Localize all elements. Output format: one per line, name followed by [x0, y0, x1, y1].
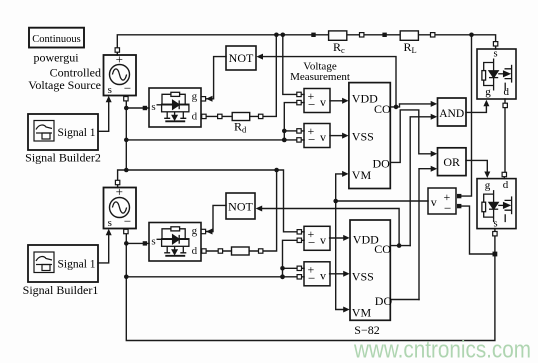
wire MOSFET3 s down, bottom rail, up to source2 -: [126, 234, 495, 341]
port source2 -: [124, 229, 128, 233]
wire branch to MOSFET1b s: [126, 242, 142, 244]
wire v-block - to MOSFET3 s node: [461, 206, 492, 254]
voltage measurement v sense: [428, 188, 456, 215]
wire R_L leads: [387, 34, 433, 36]
port v sense + filled: [457, 194, 461, 198]
port VM2 -: [297, 138, 301, 142]
voltage measurement VM1b: [304, 226, 330, 250]
wire OR bottom input from DO2: [419, 169, 432, 300]
svg-text:Voltage Source: Voltage Source: [28, 78, 101, 92]
wire source1 + to top rail: [117, 35, 313, 48]
port MOSFET1 g: [201, 97, 205, 101]
svg-text:s: s: [108, 84, 112, 96]
wire mid node long horizontal: [126, 139, 296, 141]
wire OR output to MOSFET3 g: [466, 160, 487, 171]
port VM1b -: [297, 238, 301, 242]
MOSFET M3: [477, 179, 516, 230]
svg-text:DO: DO: [373, 156, 391, 170]
wire VM1 out to VDD: [330, 100, 344, 102]
wire v-block output: [336, 200, 428, 202]
wire NOT1 output to MOSFET1 g: [206, 57, 226, 99]
arrow into VSS U2: [343, 271, 350, 277]
port v sense - filled: [457, 204, 461, 208]
wire VM1b out to VDD: [330, 237, 345, 239]
svg-text:VM: VM: [352, 168, 372, 182]
MOSFET M2: [477, 49, 516, 100]
svg-text:g: g: [485, 86, 491, 98]
wire source2 + riser and lower rail to VM1b +: [118, 170, 297, 232]
junction CO2 node: [397, 243, 402, 248]
wire DO2 out: [390, 299, 419, 301]
resistor R_d: [232, 113, 250, 135]
wire Signal Builder2 out to source1 s: [98, 102, 109, 132]
svg-text:CO: CO: [374, 102, 391, 116]
port R_c right: [360, 33, 364, 37]
junction VM riser at mid wire: [282, 138, 287, 143]
svg-text:−: −: [124, 80, 131, 95]
arrow into source1 s: [106, 96, 112, 103]
junction VM riser at VM2 +: [282, 129, 287, 134]
svg-text:AND: AND: [439, 108, 464, 120]
svg-text:DO: DO: [375, 294, 393, 308]
port R_c left filled: [311, 33, 315, 37]
port source2 +: [115, 180, 119, 184]
junction source2 - at MOSFET1b s: [124, 241, 129, 246]
svg-text:s: s: [493, 219, 497, 230]
svg-text:Signal 1: Signal 1: [58, 258, 96, 270]
arrow into VDD U1: [342, 98, 349, 104]
arrow into VM U1: [342, 171, 349, 177]
arrow into MOSFET2 g: [483, 100, 489, 107]
port MOSFET3 d: [502, 172, 506, 176]
signal builder 1 block: [28, 245, 98, 282]
port VM1 -: [297, 100, 301, 104]
wire source1 - vertical: [125, 101, 127, 170]
svg-text:S−82: S−82: [354, 323, 379, 337]
svg-text:g: g: [485, 180, 491, 192]
wire MOSFET2 d to MOSFET3 d: [504, 108, 506, 173]
svg-text:d: d: [504, 86, 510, 98]
controlled voltage source 2: [104, 184, 137, 229]
svg-text:Signal 1: Signal 1: [58, 127, 96, 139]
junction CO1 node: [394, 105, 399, 110]
svg-text:NOT: NOT: [228, 199, 253, 213]
port MOSFET2 d: [503, 103, 507, 107]
port MOSFET1b s filled: [143, 241, 147, 245]
junction VM1b riser at VM2b +: [280, 266, 285, 271]
svg-text:NOT: NOT: [229, 51, 254, 65]
junction MOSFET3 s node: [493, 252, 498, 257]
wire VM1b - down riser: [283, 240, 298, 276]
resistor R_L: [400, 31, 418, 55]
wire CO2 riser to NOT2 input: [262, 209, 399, 246]
wire NOT1 input from CO1: [263, 57, 397, 107]
svg-text:CO: CO: [374, 242, 391, 256]
wire Signal Builder1 out to source2 s: [98, 235, 109, 263]
NOT gate 1: [226, 46, 256, 70]
wire port stubs: [117, 46, 505, 277]
wire branch VM2b +: [283, 267, 298, 269]
arrow into MOSFET1b g: [206, 229, 213, 235]
port R_d2 right: [259, 249, 263, 253]
resistor R_c: [329, 31, 347, 55]
svg-text:www.cntronics.com: www.cntronics.com: [353, 337, 531, 363]
port VM2b +: [297, 266, 301, 270]
wire AND output to MOSFET2 g: [466, 107, 486, 113]
svg-text:−: −: [444, 200, 451, 215]
wire R_c leads: [316, 34, 362, 36]
S-82 comparator U2: [350, 220, 392, 320]
MOSFET M1: [149, 88, 201, 127]
wire R_L to MOSFET2 s: [435, 35, 496, 42]
arrow into AND input 1: [431, 101, 438, 107]
label Voltage Measurement: [290, 61, 350, 84]
svg-text:Measurement: Measurement: [290, 71, 350, 83]
svg-text:d: d: [503, 179, 509, 191]
port R_d right: [259, 114, 263, 118]
junction source1 - at MOSFET1 s: [124, 106, 129, 111]
wire branch to MOSFET1 s: [126, 107, 142, 109]
wire NOT2 output to MOSFET1b g: [206, 205, 226, 231]
port VM2b -: [297, 275, 301, 279]
port R_L right: [431, 33, 435, 37]
svg-text:+: +: [116, 184, 123, 199]
arrow into source2 s: [106, 229, 112, 236]
port R_d2 left: [218, 249, 222, 253]
port MOSFET1b d: [202, 249, 206, 253]
port source1 +: [115, 48, 119, 52]
svg-text:−: −: [124, 213, 131, 228]
svg-text:VM: VM: [352, 305, 372, 319]
wire lower rail to R_d2: [206, 170, 277, 251]
wire R_c to R_L: [364, 34, 385, 36]
port MOSFET3 s: [493, 232, 497, 236]
arrow into OR input 1: [431, 151, 438, 157]
arrow into VM U2: [343, 307, 350, 313]
port MOSFET2 s: [493, 42, 497, 46]
voltage measurement VM2: [304, 124, 330, 148]
signal builder 2 block: [28, 114, 98, 150]
port VM1b +: [297, 230, 301, 234]
svg-text:Continuous: Continuous: [32, 34, 80, 45]
controlled voltage source 1: [104, 52, 137, 96]
voltage measurement VM2b: [304, 262, 330, 286]
voltage measurement VM1: [304, 89, 330, 113]
label Controlled Voltage Source: [28, 66, 101, 92]
MOSFET M1b: [149, 223, 201, 262]
junction top rail at v+ riser: [469, 33, 474, 38]
junction top rail at R_d riser: [274, 33, 279, 38]
junction v out node: [333, 199, 338, 204]
junction source1 - at mid wire: [124, 138, 129, 143]
wire VM1 + riser from top rail: [283, 35, 297, 95]
arrow into AND input 2: [431, 114, 438, 120]
powergui block Continuous: [29, 28, 84, 48]
arrow into MOSFET3 g: [484, 172, 490, 179]
wire DO1 to OR input 1: [390, 110, 432, 162]
OR gate: [438, 148, 467, 176]
port MOSFET1b g: [201, 229, 205, 233]
wire branch VM2 +: [284, 130, 297, 132]
svg-text:VSS: VSS: [352, 129, 374, 143]
junction source1 - at lower rail: [124, 168, 129, 173]
wire CO2 out: [390, 245, 410, 247]
junction lower rail at R_d2 riser: [274, 168, 279, 173]
wire MOSFET1 d through R_d: [206, 35, 276, 117]
wire CO2 riser to AND input 2: [410, 117, 432, 246]
svg-text:s: s: [108, 217, 112, 229]
wire v-block + riser: [461, 35, 471, 196]
port R_L left filled: [382, 33, 386, 37]
svg-text:Signal Builder2: Signal Builder2: [25, 151, 101, 165]
wire VM2 out to VSS: [330, 135, 344, 137]
wire v-block out to upper VM pin: [336, 174, 344, 201]
wire VM1 - down to mid node: [284, 103, 297, 140]
arrow into NOT1: [256, 54, 263, 60]
svg-text:OR: OR: [443, 155, 460, 169]
S-82 comparator U1: [349, 83, 391, 189]
svg-text:VSS: VSS: [352, 269, 374, 283]
wire lower mid long horizontal: [126, 276, 297, 278]
arrow into VSS U1: [342, 133, 349, 139]
junction top rail at VM1 riser: [281, 33, 286, 38]
port VM1 +: [297, 92, 301, 96]
wire CO1 to AND input 1: [390, 104, 432, 107]
arrow into VDD U2: [343, 235, 350, 241]
wire v-block out to lower VM pin: [336, 201, 344, 310]
port R_d left: [218, 114, 222, 118]
NOT gate 2: [226, 193, 255, 219]
wire VM2b out to VSS: [330, 273, 345, 275]
svg-text:s: s: [494, 49, 498, 60]
junction VM1b riser at lower mid wire: [280, 274, 285, 279]
port source1 -: [124, 97, 128, 101]
svg-text:powergui: powergui: [33, 51, 79, 65]
svg-text:v: v: [431, 195, 437, 209]
arrow into NOT2: [256, 206, 263, 212]
port MOSFET1 s filled: [143, 106, 147, 110]
arrow into MOSFET1 g: [206, 96, 213, 102]
resistor R_d2: [232, 247, 250, 255]
arrow into OR input 2: [431, 166, 438, 172]
junction source2 - at lower mid wire: [124, 275, 129, 280]
svg-text:Signal Builder1: Signal Builder1: [23, 283, 99, 297]
port MOSFET1 d: [202, 114, 206, 118]
AND gate: [438, 98, 467, 126]
port VM2 +: [297, 129, 301, 133]
